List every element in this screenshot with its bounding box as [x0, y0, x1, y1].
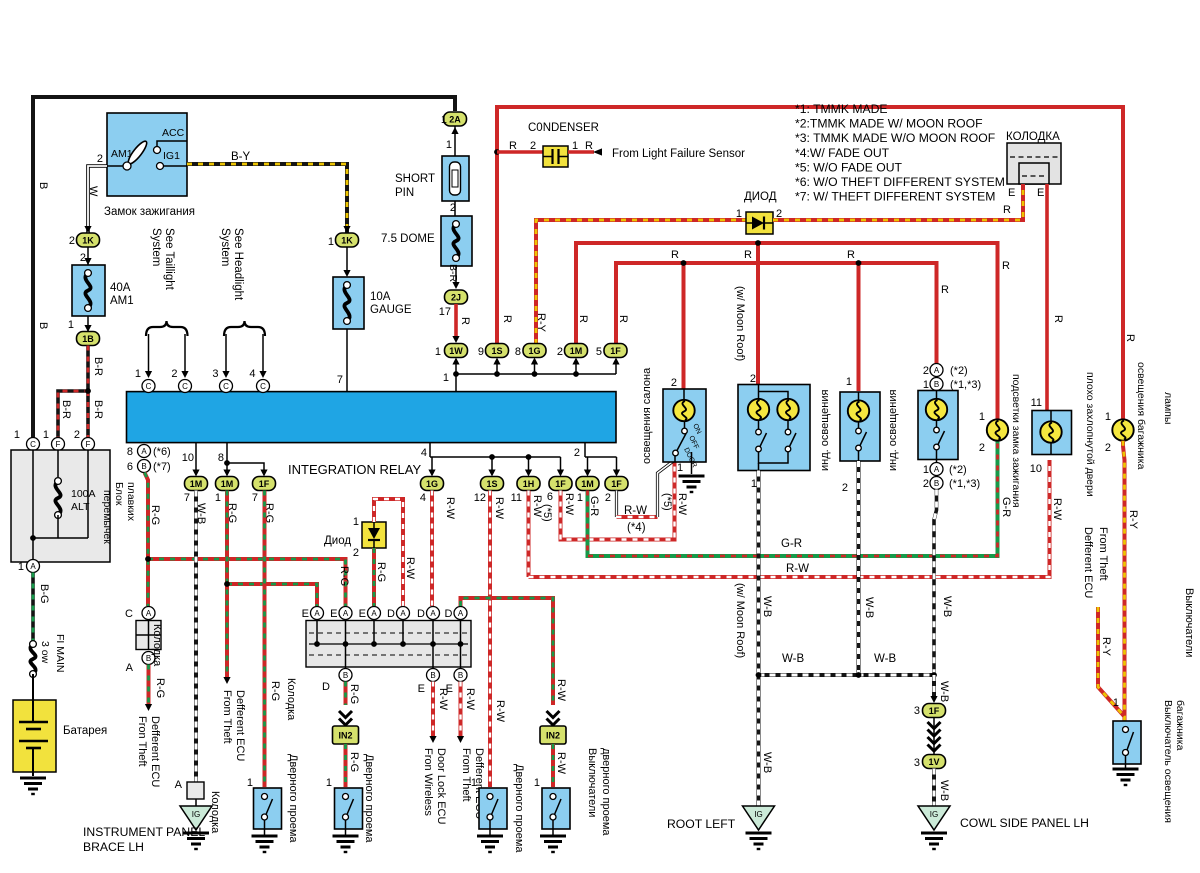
- svg-text:B: B: [146, 654, 151, 663]
- svg-text:6: 6: [127, 461, 133, 473]
- svg-text:Выключатели: Выключатели: [1183, 588, 1195, 657]
- svg-text:(*4): (*4): [627, 522, 646, 534]
- svg-text:плохо захлопнутой двери: плохо захлопнутой двери: [1084, 372, 1096, 497]
- svg-text:AM1: AM1: [110, 295, 134, 307]
- svg-text:дверного проема: дверного проема: [600, 748, 612, 836]
- wire R to light failure sensor: [568, 150, 594, 154]
- svg-text:инд. освещения: инд. освещения: [887, 390, 899, 471]
- svg-text:G-R: G-R: [588, 496, 600, 516]
- svg-text:1: 1: [751, 478, 757, 490]
- svg-text:*1: TMMK MADE: *1: TMMK MADE: [795, 102, 888, 116]
- svg-text:B: B: [934, 479, 939, 488]
- wire to fuse AM1: [87, 247, 89, 265]
- svg-text:Defferent ECU: Defferent ECU: [234, 690, 246, 761]
- svg-text:C: C: [223, 382, 229, 391]
- lamp L1: [673, 400, 694, 421]
- svg-text:R-G: R-G: [348, 684, 360, 704]
- svg-text:2J: 2J: [451, 292, 461, 302]
- svg-text:40A: 40A: [110, 282, 131, 294]
- svg-text:2: 2: [605, 492, 611, 504]
- svg-text:E: E: [330, 608, 337, 620]
- svg-text:2: 2: [979, 442, 985, 454]
- wire R-G from 1F pin7 to door switch 1: [263, 491, 267, 788]
- svg-text:ROOT LEFT: ROOT LEFT: [667, 817, 736, 831]
- svg-text:C: C: [182, 382, 188, 391]
- connector 1M (pin10): [185, 477, 208, 491]
- svg-text:11: 11: [511, 492, 522, 504]
- svg-text:1M: 1M: [581, 479, 594, 489]
- connector 1S (pin12): [481, 477, 504, 491]
- wire B-R to 2J: [455, 266, 457, 283]
- svg-text:C: C: [260, 382, 266, 391]
- wire R-G below kolodka: [147, 665, 151, 706]
- svg-text:1K: 1K: [341, 235, 353, 245]
- svg-text:1: 1: [353, 516, 359, 528]
- bus line under ovals to relay pin 1: [456, 373, 616, 375]
- IG triangle instrument panel: [180, 806, 212, 830]
- svg-text:W: W: [87, 186, 99, 197]
- connector 1F: [604, 344, 627, 358]
- svg-text:B-R: B-R: [447, 264, 459, 283]
- wire R-Y line A to diode: [536, 220, 746, 344]
- lamp L4: [926, 399, 947, 420]
- svg-text:*2:TMMK MADE W/ MOON ROOF: *2:TMMK MADE W/ MOON ROOF: [795, 117, 983, 131]
- svg-text:B: B: [37, 182, 49, 189]
- svg-text:2: 2: [923, 365, 929, 377]
- svg-text:E: E: [359, 608, 366, 620]
- svg-text:*5: W/O FADE OUT: *5: W/O FADE OUT: [795, 160, 903, 174]
- svg-text:R-G: R-G: [348, 752, 360, 772]
- svg-text:*4:W/ FADE OUT: *4:W/ FADE OUT: [795, 146, 890, 160]
- connector IN2 #2: [540, 726, 566, 744]
- svg-text:F: F: [86, 440, 91, 449]
- svg-text:IG: IG: [930, 810, 938, 819]
- svg-text:R-W: R-W: [555, 679, 567, 702]
- svg-text:2: 2: [671, 377, 677, 389]
- wire B-R fork: [58, 346, 88, 438]
- svg-text:1: 1: [441, 114, 447, 126]
- svg-text:B-Y: B-Y: [231, 151, 251, 163]
- connector 2J: [445, 290, 468, 304]
- svg-text:R-Y: R-Y: [1100, 637, 1112, 657]
- svg-text:2: 2: [574, 447, 580, 459]
- svg-text:9: 9: [478, 346, 484, 358]
- integration relay U2: [127, 392, 617, 443]
- svg-text:R: R: [617, 315, 629, 323]
- brace headlight: [224, 321, 265, 336]
- connector 2A: [444, 112, 467, 126]
- svg-text:1: 1: [846, 376, 852, 388]
- svg-text:System: System: [219, 228, 231, 266]
- wire R-W from B-E1 to wireless door lock ECU: [431, 682, 435, 738]
- svg-text:12: 12: [474, 492, 486, 504]
- svg-text:IG: IG: [754, 810, 762, 819]
- svg-text:Door Lock ECU: Door Lock ECU: [435, 748, 447, 824]
- svg-text:See Taillight: See Taillight: [163, 228, 175, 291]
- IG triangle ROOT LEFT: [743, 806, 775, 830]
- svg-text:E: E: [302, 608, 309, 620]
- svg-text:IG: IG: [192, 810, 200, 819]
- svg-text:D: D: [322, 681, 330, 693]
- svg-text:2: 2: [750, 373, 756, 385]
- svg-text:W-B: W-B: [782, 653, 804, 665]
- svg-text:2: 2: [74, 429, 80, 441]
- svg-text:W-B: W-B: [874, 653, 896, 665]
- svg-text:1G: 1G: [426, 479, 438, 489]
- svg-text:2: 2: [80, 252, 86, 264]
- svg-text:R-G: R-G: [375, 562, 387, 582]
- svg-text:1: 1: [326, 777, 332, 789]
- svg-text:1M: 1M: [221, 479, 234, 489]
- svg-text:1: 1: [446, 139, 452, 151]
- svg-text:R: R: [847, 249, 855, 261]
- svg-text:C: C: [30, 440, 36, 449]
- svg-text:R: R: [577, 315, 589, 323]
- svg-text:A: A: [343, 609, 349, 618]
- wire R-G from relay B pin to kolodka: [145, 473, 149, 607]
- svg-text:Колодка: Колодка: [285, 678, 297, 721]
- svg-text:2: 2: [171, 368, 177, 380]
- svg-text:Выключатель освещения: Выключатель освещения: [1162, 700, 1174, 823]
- svg-text:*7: W/ THEFT DIFFERENT SYSTEM: *7: W/ THEFT DIFFERENT SYSTEM: [795, 190, 995, 204]
- svg-text:A: A: [934, 465, 940, 474]
- svg-text:A: A: [175, 779, 183, 791]
- svg-text:инд. освещения: инд. освещения: [819, 390, 831, 471]
- svg-text:3: 3: [212, 368, 218, 380]
- svg-text:(*7): (*7): [153, 461, 171, 473]
- svg-text:B: B: [37, 322, 49, 329]
- svg-text:Выключатели: Выключатели: [586, 748, 598, 817]
- svg-text:W-B: W-B: [761, 596, 773, 617]
- lamp L2b: [777, 399, 798, 420]
- svg-text:R-W: R-W: [1051, 498, 1063, 521]
- connector 1H (pin11): [517, 477, 540, 491]
- lamp L5: [1040, 421, 1061, 442]
- svg-text:Дверного проема: Дверного проема: [287, 754, 299, 843]
- svg-text:Fron Theft: Fron Theft: [136, 716, 148, 767]
- svg-text:Колодка: Колодка: [151, 624, 163, 667]
- wire W-B to cowl IG: [932, 769, 936, 807]
- svg-text:B: B: [430, 671, 435, 680]
- svg-text:A: A: [430, 609, 436, 618]
- svg-text:2: 2: [97, 153, 103, 165]
- svg-text:R-Y: R-Y: [535, 313, 547, 333]
- svg-text:R-W: R-W: [786, 563, 809, 575]
- svg-text:FI MAIN: FI MAIN: [54, 634, 66, 673]
- svg-text:R: R: [744, 249, 752, 261]
- see taillight arrows: [148, 334, 150, 372]
- ground trunk switch: [1113, 768, 1139, 771]
- svg-text:F: F: [56, 440, 61, 449]
- svg-text:R: R: [1003, 204, 1011, 216]
- svg-text:7: 7: [337, 374, 343, 386]
- fuse 100A ALT: [55, 481, 60, 515]
- svg-text:GAUGE: GAUGE: [370, 304, 412, 316]
- svg-text:1W: 1W: [449, 346, 463, 356]
- svg-text:C0NDENSER: C0NDENSER: [528, 122, 599, 134]
- svg-text:A: A: [400, 609, 406, 618]
- svg-text:IN2: IN2: [338, 731, 352, 741]
- svg-text:1: 1: [328, 236, 334, 248]
- wire pin 7 to relay: [346, 329, 348, 392]
- wire R-G diode bottom to E pin: [372, 548, 376, 606]
- svg-text:1B: 1B: [82, 334, 94, 344]
- pin B E2: [454, 669, 467, 682]
- svg-text:SHORT: SHORT: [395, 173, 435, 185]
- connector 1M: [565, 344, 588, 358]
- wire R-Y trunk lamp to switch: [1123, 441, 1125, 721]
- connector 1S: [486, 344, 509, 358]
- svg-text:R: R: [1002, 260, 1010, 272]
- svg-text:1: 1: [979, 411, 985, 423]
- svg-text:освещения багажника: освещения багажника: [1135, 362, 1147, 470]
- connector 1B: [87, 316, 89, 332]
- svg-text:R: R: [459, 317, 471, 325]
- svg-text:Замок зажигания: Замок зажигания: [104, 206, 195, 218]
- wire R to 1W: [454, 304, 458, 337]
- svg-text:ACC: ACC: [162, 127, 185, 139]
- svg-text:(*2): (*2): [950, 365, 968, 377]
- svg-text:перемычек: перемычек: [101, 490, 113, 544]
- svg-text:4: 4: [421, 447, 427, 459]
- svg-text:IG1: IG1: [163, 150, 180, 162]
- svg-text:(*6): (*6): [153, 446, 171, 458]
- wire W-B from ind lamp to horizontal: [857, 461, 861, 675]
- svg-text:B: B: [934, 380, 939, 389]
- connector 1F (pin6): [549, 477, 572, 491]
- connector 1K (left): [84, 226, 91, 233]
- svg-text:1: 1: [247, 777, 253, 789]
- svg-text:3 ow: 3 ow: [39, 641, 51, 664]
- svg-text:7: 7: [252, 492, 258, 504]
- fuse SHORT PIN: [442, 156, 469, 201]
- svg-text:R-W: R-W: [676, 493, 688, 516]
- svg-text:1: 1: [68, 319, 74, 331]
- wire R-G from B-D pin to IN2 #1: [344, 682, 348, 706]
- wire G-R from D pin to IN2 chain (labeled R-W): [461, 598, 554, 705]
- svg-text:17: 17: [439, 306, 451, 318]
- svg-text:3: 3: [914, 705, 920, 717]
- wire R-G from 1M pin1: [225, 491, 229, 679]
- svg-text:(*5): (*5): [541, 504, 553, 522]
- svg-text:11: 11: [1031, 397, 1042, 409]
- svg-text:2: 2: [530, 140, 536, 152]
- svg-text:B: B: [458, 671, 463, 680]
- svg-text:*6: W/O THEFT DIFFERENT SYSTEM: *6: W/O THEFT DIFFERENT SYSTEM: [795, 175, 1005, 189]
- wire W-B from 1M to instrument panel: [194, 491, 198, 783]
- svg-text:R-W: R-W: [624, 505, 647, 517]
- svg-text:1: 1: [471, 777, 477, 789]
- svg-text:D: D: [445, 608, 453, 620]
- fuse 7.5 DOME: [454, 201, 456, 216]
- trunk light switch Выключатель освещения багажника: [1113, 721, 1141, 764]
- wire R-W 1H chain to horizontal: [527, 491, 531, 578]
- pin B D: [339, 669, 352, 682]
- svg-text:ALT: ALT: [71, 501, 90, 513]
- svg-text:8: 8: [515, 346, 521, 358]
- ground battery: [20, 777, 46, 780]
- svg-text:System: System: [150, 228, 162, 266]
- svg-text:1G: 1G: [528, 346, 540, 356]
- svg-text:1: 1: [736, 208, 742, 220]
- fuse 10A GAUGE: [346, 247, 348, 271]
- svg-text:10: 10: [182, 452, 194, 464]
- svg-text:R-G: R-G: [149, 505, 161, 525]
- svg-text:1K: 1K: [82, 235, 94, 245]
- wire W-B from moon roof box to ROOT LEFT: [757, 471, 761, 807]
- svg-text:C: C: [125, 608, 133, 620]
- svg-text:A: A: [141, 447, 147, 456]
- svg-text:(w/ Moon Roof): (w/ Moon Roof): [734, 286, 746, 361]
- svg-text:багажника: багажника: [1174, 700, 1186, 751]
- svg-text:3: 3: [914, 757, 920, 769]
- svg-text:1F: 1F: [610, 346, 621, 356]
- lamp L2a: [748, 399, 769, 420]
- wire R-W from B-E2 to theft ECU: [459, 682, 463, 738]
- wire R-W diode top loop to D pin: [374, 499, 403, 606]
- svg-text:G-R: G-R: [781, 538, 802, 550]
- wire G-R from 1M chain long horizontal: [588, 441, 998, 556]
- svg-text:From Theft: From Theft: [1097, 527, 1109, 581]
- svg-text:W-B: W-B: [863, 597, 875, 618]
- double arrows: [933, 718, 935, 755]
- wire R-W 1S chain to door switch 3: [488, 491, 492, 788]
- svg-text:Колодка: Колодка: [209, 791, 221, 834]
- svg-text:R-W: R-W: [464, 688, 476, 711]
- svg-text:1: 1: [923, 464, 929, 476]
- svg-text:R-W: R-W: [493, 497, 505, 520]
- svg-text:COWL SIDE PANEL LH: COWL SIDE PANEL LH: [960, 816, 1089, 830]
- svg-text:Диод: Диод: [324, 535, 351, 547]
- svg-text:1F: 1F: [555, 479, 566, 489]
- svg-text:100A: 100A: [71, 488, 96, 500]
- node condenser tap: [494, 149, 500, 155]
- svg-text:B: B: [141, 462, 146, 471]
- svg-text:See Headlight: See Headlight: [232, 228, 244, 301]
- svg-text:1M: 1M: [570, 346, 583, 356]
- svg-text:R: R: [509, 140, 517, 152]
- wire R top bus: [497, 107, 1123, 419]
- brace taillight: [146, 321, 188, 336]
- svg-text:A: A: [934, 366, 940, 375]
- svg-text:A: A: [30, 562, 36, 571]
- wire white + R-W (*4) from 1F pin2 to dome lamp: [615, 491, 618, 518]
- svg-text:B: B: [343, 671, 348, 680]
- svg-text:1: 1: [443, 372, 449, 384]
- svg-text:7: 7: [184, 492, 190, 504]
- svg-text:(*5): (*5): [661, 493, 673, 511]
- battery Батарея: [32, 674, 34, 700]
- svg-text:From Theft: From Theft: [221, 690, 233, 744]
- svg-text:R-W: R-W: [437, 688, 449, 711]
- svg-text:10: 10: [1030, 463, 1042, 475]
- svg-text:R-G: R-G: [338, 566, 350, 586]
- fuse FL MAIN 3.0W: [30, 644, 35, 674]
- svg-text:A: A: [314, 609, 320, 618]
- branch R to dome lamp box: [682, 263, 686, 389]
- wire R-W long horizontal to door ajar lamp: [529, 460, 1050, 577]
- svg-text:R-W: R-W: [404, 557, 416, 580]
- svg-text:R-W: R-W: [555, 752, 567, 775]
- svg-text:(w/ Moon Roof): (w/ Moon Roof): [734, 583, 746, 658]
- svg-text:R: R: [1124, 334, 1136, 342]
- svg-text:Дверного проема: Дверного проема: [513, 764, 525, 853]
- IG triangle COWL: [918, 806, 950, 830]
- svg-text:2: 2: [353, 547, 359, 559]
- svg-text:B-R: B-R: [92, 357, 104, 376]
- svg-text:4: 4: [420, 492, 426, 504]
- svg-text:R-G: R-G: [154, 678, 166, 698]
- connector 1G: [523, 344, 546, 358]
- svg-text:10A: 10A: [370, 291, 391, 303]
- svg-text:R: R: [1052, 315, 1064, 323]
- wire R-Y diode to КОЛОДКА: [773, 184, 1023, 220]
- svg-text:B-R: B-R: [60, 400, 72, 419]
- chevrons IN2 #2: [547, 711, 560, 718]
- svg-text:1: 1: [677, 462, 683, 474]
- svg-text:R-W: R-W: [444, 497, 456, 520]
- connector 1F (pin2): [605, 477, 628, 491]
- wire B-G: [31, 573, 35, 642]
- wire R line C: [616, 263, 937, 364]
- ignition switch U1 Замок зажигания: [107, 113, 187, 196]
- svg-text:R: R: [671, 249, 679, 261]
- svg-text:Дверного проема: Дверного проема: [363, 754, 375, 843]
- svg-text:E: E: [1008, 187, 1015, 199]
- svg-text:*3: TMMK MADE W/O MOON ROOF: *3: TMMK MADE W/O MOON ROOF: [795, 131, 995, 145]
- svg-text:8: 8: [127, 446, 133, 458]
- see headlight arrows: [225, 334, 227, 372]
- svg-text:Defferent ECU: Defferent ECU: [149, 716, 161, 787]
- svg-text:1: 1: [1113, 697, 1119, 709]
- svg-text:ДИОД: ДИОД: [744, 191, 777, 203]
- svg-text:1: 1: [435, 346, 441, 358]
- svg-text:R-W: R-W: [494, 700, 506, 723]
- svg-text:A: A: [458, 609, 464, 618]
- svg-text:1F: 1F: [929, 706, 940, 716]
- branch R to ind lamp box: [857, 263, 861, 391]
- svg-text:2A: 2A: [449, 114, 461, 124]
- svg-text:W-B: W-B: [941, 596, 953, 617]
- ground dome lamp: [679, 475, 705, 478]
- wire R to condenser: [497, 150, 543, 154]
- svg-text:B-G: B-G: [38, 584, 50, 604]
- svg-text:C: C: [146, 382, 152, 391]
- svg-text:плавких: плавких: [125, 482, 137, 522]
- svg-text:BRACE LH: BRACE LH: [83, 840, 144, 854]
- connector 1F (pin8b): [253, 477, 276, 491]
- svg-text:A: A: [146, 609, 152, 618]
- svg-text:Defferent ECU: Defferent ECU: [1082, 527, 1094, 598]
- wire R-W (*5) from 1F to dome lamp switch: [561, 461, 675, 540]
- svg-text:6: 6: [547, 491, 553, 503]
- svg-text:1: 1: [14, 429, 20, 441]
- connector 1K (gauge): [187, 164, 347, 233]
- svg-text:5: 5: [596, 346, 602, 358]
- svg-text:1: 1: [18, 561, 24, 573]
- chevrons IN2 #1: [339, 711, 352, 718]
- wire R from КОЛОДКА to door-ajar lamp: [1045, 184, 1049, 410]
- svg-text:INSTRUMENT PANEL: INSTRUMENT PANEL: [83, 825, 205, 839]
- svg-text:1: 1: [577, 492, 583, 504]
- svg-text:2: 2: [923, 478, 929, 490]
- connector 1W: [445, 344, 468, 358]
- connector 1M (pin1): [576, 477, 599, 491]
- connector 1M (pin8a): [216, 477, 239, 491]
- svg-text:2: 2: [1105, 442, 1111, 454]
- svg-text:B-R: B-R: [92, 400, 104, 419]
- svg-text:E: E: [1037, 187, 1044, 199]
